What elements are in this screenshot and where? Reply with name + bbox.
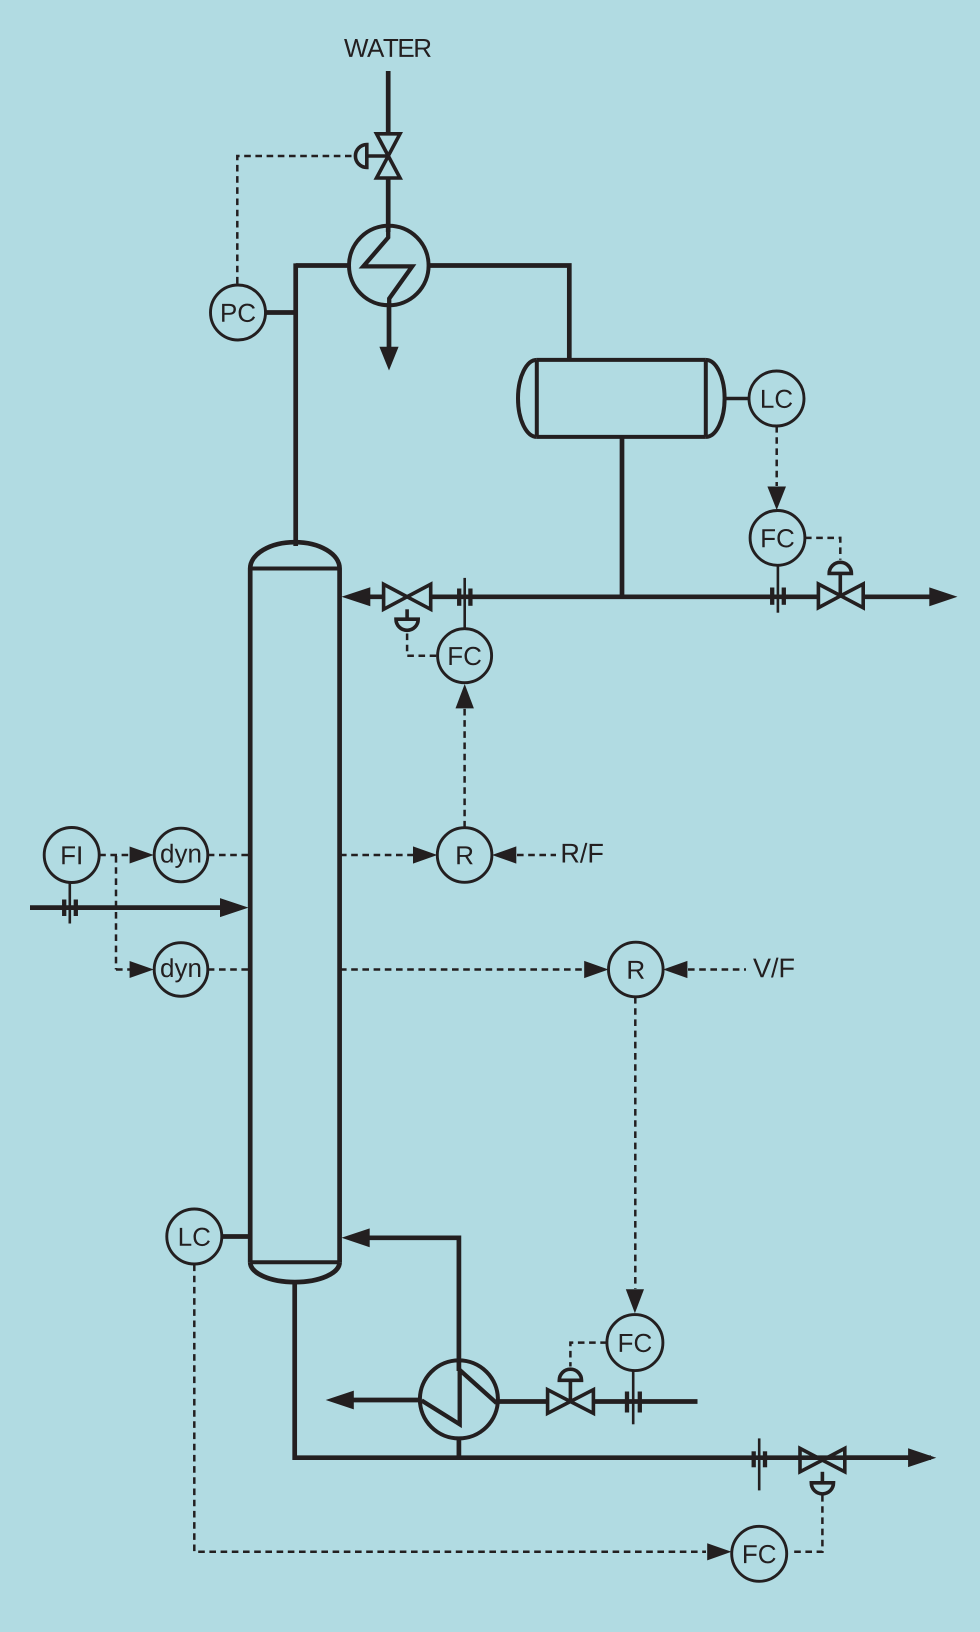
dashed signal FC to distillate valve	[805, 538, 840, 560]
dashed branch down to dyn2	[115, 856, 118, 970]
dashed R/F	[517, 854, 556, 857]
actuator distillate valve	[829, 562, 851, 595]
dashed signal FI to dyn1	[99, 854, 130, 857]
orifice bottoms flow element	[758, 1438, 761, 1490]
controller FC steam	[607, 1315, 663, 1371]
wire condenser left to downcomer	[296, 263, 350, 268]
arrow condenser outlet down	[379, 347, 398, 371]
arrow R/F into R1	[492, 846, 516, 863]
block dyn1	[154, 828, 208, 882]
wire drum outlet	[620, 437, 625, 597]
wire reboiler left outlet	[351, 1398, 421, 1403]
wire valve to condenser	[386, 178, 391, 232]
arrow into dyn2	[130, 961, 154, 978]
wire condenser right to drum	[429, 266, 570, 361]
arrow LC signal down	[767, 487, 786, 511]
column top weld line	[250, 567, 339, 571]
arrow reboiler outlet left	[326, 1391, 354, 1410]
condenser (heat exchanger)	[349, 226, 429, 306]
wire bottoms line after valve	[845, 1455, 911, 1460]
actuator bottoms valve	[811, 1472, 833, 1494]
dashed signal dyn1 to R1	[340, 854, 413, 857]
reflux drum	[518, 360, 725, 437]
controller LC drum	[749, 371, 804, 426]
wire top product line	[431, 594, 819, 599]
wire LC tap to column	[222, 1234, 248, 1239]
indicator FI feed	[44, 828, 99, 883]
orifice distillate flow element	[777, 565, 780, 612]
arrow feed into column	[220, 898, 249, 917]
actuator water valve	[355, 145, 388, 168]
dashed signal FC to steam valve	[570, 1343, 607, 1367]
dashed signal R1 to FC reflux	[463, 707, 466, 828]
wire feed line	[30, 905, 222, 910]
controller LC bottoms	[167, 1209, 222, 1264]
dashed signal bottoms valve to FC	[790, 1495, 822, 1552]
dashed signal PC to water valve	[237, 156, 351, 284]
dashed V/F	[688, 968, 746, 971]
dashed signal reflux valve to FC	[407, 634, 437, 656]
valve bottoms	[800, 1448, 845, 1471]
arrow R2 to FC steam	[626, 1289, 644, 1313]
actuator steam valve	[559, 1369, 581, 1401]
dashed signal R2 to FC steam	[634, 997, 637, 1289]
wire column bottom outlet	[295, 1282, 931, 1458]
actuator reflux valve	[396, 609, 418, 630]
dashed signal dyn1 to column	[208, 854, 250, 857]
wire reboiler bottom stub	[457, 1438, 462, 1458]
dashed signal LC to FC	[775, 426, 778, 486]
arrow reflux into column	[342, 587, 371, 606]
valve reflux	[384, 584, 431, 609]
orifice feed flow element	[62, 900, 66, 917]
wire drum to LC	[725, 397, 750, 401]
wire steam line after valve	[593, 1399, 697, 1404]
arrow bottoms out	[908, 1448, 936, 1467]
label WATER	[344, 39, 431, 57]
wire steam line to valve	[498, 1399, 549, 1404]
wire PC tap	[266, 310, 295, 315]
label V/F	[753, 958, 794, 978]
arrow V/F into R2	[663, 961, 687, 978]
arrow into R1	[413, 846, 437, 863]
controller FC distillate	[750, 511, 805, 566]
reboiler coil	[422, 1370, 497, 1424]
valve steam	[548, 1390, 594, 1414]
condenser coil	[363, 229, 412, 304]
wire reboiler return	[365, 1238, 459, 1371]
orifice reflux flow element	[463, 578, 466, 629]
controller R1 ratio	[437, 828, 492, 883]
controller FC bottoms	[732, 1526, 787, 1581]
wire top product line after valve	[863, 594, 931, 599]
column bottom weld line	[250, 1260, 339, 1264]
controller R2 ratio	[609, 942, 664, 997]
arrow R1 to FC reflux	[456, 684, 474, 708]
wire FI tap	[69, 883, 72, 924]
wire water inlet	[386, 71, 391, 134]
arrow LC signal into FC bottoms	[707, 1543, 731, 1560]
dashed into dyn2	[116, 968, 130, 971]
block dyn2	[154, 943, 208, 997]
arrow into dyn1	[130, 847, 154, 864]
orifice steam flow element	[632, 1371, 635, 1425]
reboiler (heat exchanger)	[420, 1360, 498, 1438]
valve water (control valve)	[377, 134, 401, 178]
arrow reboiler return into column	[342, 1228, 370, 1247]
dashed signal dyn2 to column	[208, 968, 250, 971]
controller PC	[211, 285, 266, 340]
wire condenser outlet	[387, 303, 392, 350]
valve distillate	[818, 584, 863, 608]
column body	[250, 542, 339, 1282]
arrow distillate out	[929, 587, 957, 606]
arrow into R2	[584, 961, 608, 978]
controller FC reflux	[438, 629, 492, 683]
dashed signal LC to FC bottoms	[194, 1265, 706, 1552]
wire reflux line	[366, 594, 384, 599]
dashed signal dyn2 to R2	[340, 968, 584, 971]
label R/F	[563, 843, 603, 863]
wire downcomer to column top	[293, 263, 298, 546]
